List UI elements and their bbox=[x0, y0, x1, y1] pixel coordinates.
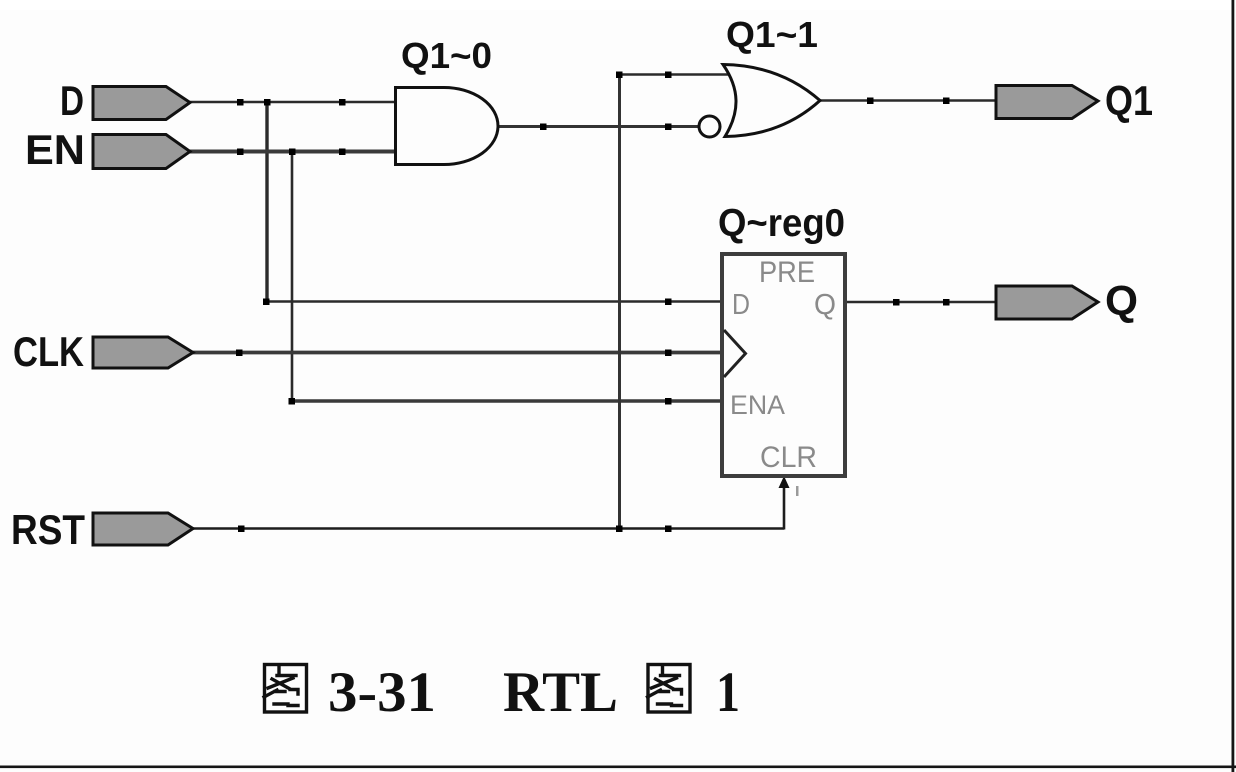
svg-text:Q1: Q1 bbox=[1105, 77, 1153, 124]
input port D bbox=[93, 87, 190, 120]
junction dot D wire 2 bbox=[339, 99, 346, 106]
junction dot Q wire 1 bbox=[893, 299, 900, 306]
and-gate Q1~0 bbox=[396, 88, 499, 165]
svg-text:Q1~1: Q1~1 bbox=[726, 14, 818, 55]
or-gate input bubble bbox=[699, 116, 720, 137]
register clock triangle bbox=[724, 330, 746, 377]
junction dot AND out 1 bbox=[540, 124, 547, 131]
junction dot CLK wire 2 bbox=[665, 350, 672, 357]
junction dot D-reg corner bbox=[263, 299, 270, 306]
svg-text:D: D bbox=[732, 289, 750, 321]
junction dot EN wire 1 bbox=[237, 149, 244, 156]
wire D net vertical drop bbox=[265, 102, 268, 302]
svg-text:EN: EN bbox=[25, 126, 85, 173]
input port EN bbox=[93, 135, 190, 169]
junction dot RST wire 1 bbox=[238, 526, 245, 533]
svg-text:RST: RST bbox=[11, 506, 85, 553]
svg-text:ENA: ENA bbox=[730, 390, 785, 420]
wire EN net horizontal bbox=[188, 150, 396, 154]
svg-text:CLK: CLK bbox=[13, 328, 84, 375]
wire RST vertical to OR input bbox=[618, 75, 621, 529]
svg-text:1: 1 bbox=[716, 661, 740, 724]
junction dot top wire bbox=[665, 72, 672, 79]
artifact tick bbox=[796, 486, 799, 496]
wire OR output to Q1 bbox=[819, 99, 997, 102]
junction dot ENA corner bbox=[289, 398, 296, 405]
wire AND output to bubble bbox=[497, 125, 699, 128]
svg-text:3-31: 3-31 bbox=[328, 661, 436, 724]
wire OR top input bbox=[618, 73, 730, 76]
wire RST horizontal bbox=[191, 527, 784, 530]
svg-text:Q: Q bbox=[1105, 277, 1138, 324]
wire RST riser to CLR bbox=[783, 479, 786, 530]
junction dot D-reg wire bbox=[665, 299, 672, 306]
svg-text:D: D bbox=[60, 77, 84, 124]
output port Q1 bbox=[996, 86, 1098, 119]
wire EN net vertical drop bbox=[291, 152, 294, 402]
caption glyph tu1 bbox=[264, 665, 307, 713]
junction dot RST wire 2 bbox=[665, 526, 672, 533]
junction dot Q1 wire 1 bbox=[867, 98, 874, 105]
junction dot D wire corner bbox=[264, 99, 271, 106]
svg-text:RTL: RTL bbox=[503, 661, 618, 724]
input port CLK bbox=[93, 337, 193, 368]
junction dot AND out 2 bbox=[665, 124, 672, 131]
junction dot top wire corner bbox=[616, 72, 623, 79]
svg-text:CLR: CLR bbox=[760, 441, 817, 474]
junction dot ENA wire bbox=[665, 398, 672, 405]
output port Q bbox=[996, 286, 1098, 319]
caption glyph tu2 bbox=[648, 665, 691, 713]
wire D net horizontal bbox=[188, 101, 396, 104]
junction dot CLK wire 1 bbox=[236, 350, 243, 357]
wire D to register bbox=[266, 300, 723, 303]
junction dot Q wire 2 bbox=[943, 299, 950, 306]
junction dot Q1 wire 2 bbox=[943, 98, 950, 105]
wire EN to register ENA bbox=[291, 399, 723, 403]
svg-text:PRE: PRE bbox=[759, 256, 815, 289]
junction dot EN wire corner bbox=[289, 149, 296, 156]
register Q~reg0 box bbox=[722, 254, 845, 476]
page border right bbox=[1232, 0, 1235, 772]
svg-text:Q~reg0: Q~reg0 bbox=[718, 202, 845, 245]
wire register Q to Q port bbox=[845, 301, 997, 304]
junction dot RST at riser bbox=[616, 526, 623, 533]
wire CLK to register bbox=[192, 351, 722, 355]
CLR arrowhead bbox=[779, 476, 790, 488]
input port RST bbox=[93, 513, 193, 545]
or-gate Q1~1 bbox=[723, 65, 820, 137]
junction dot D wire 1 bbox=[237, 99, 244, 106]
page border bottom bbox=[0, 766, 1236, 769]
svg-text:Q: Q bbox=[814, 289, 836, 321]
svg-text:Q1~0: Q1~0 bbox=[401, 35, 492, 76]
junction dot EN wire 2 bbox=[339, 149, 346, 156]
